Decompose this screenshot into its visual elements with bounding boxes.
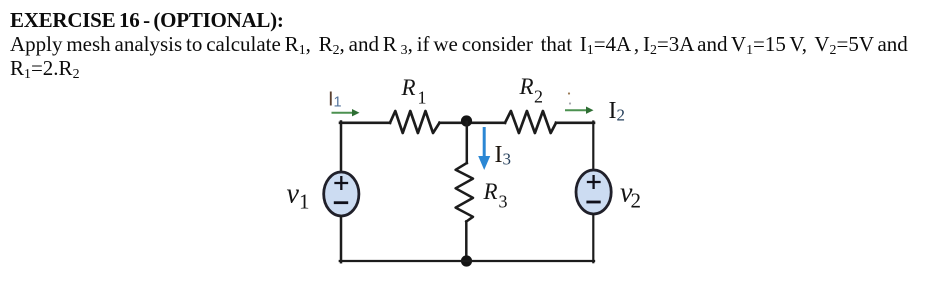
wire right vertical lower (592, 215, 594, 263)
wire left vertical upper (340, 122, 343, 173)
resistor R2 (505, 111, 556, 133)
label R3 (483, 179, 508, 212)
label I2 (609, 98, 626, 125)
label R1 (401, 75, 427, 108)
voltage source v2 (576, 170, 611, 214)
svg-text:R: R (401, 75, 416, 100)
svg-text:1: 1 (418, 88, 427, 108)
svg-text:2: 2 (534, 87, 543, 107)
voltage source v1 (324, 172, 359, 216)
wire R2 to top-right corner (556, 122, 594, 125)
label v1 (287, 179, 310, 214)
label I1 (328, 89, 342, 111)
faint speck artifacts above I2 arrow (568, 92, 571, 104)
wire right vertical upper (592, 122, 594, 171)
wire top-left horizontal segment (340, 122, 390, 125)
svg-text:1: 1 (334, 95, 342, 111)
svg-text:2: 2 (631, 189, 642, 213)
svg-text:I: I (609, 98, 617, 124)
svg-text:I: I (495, 142, 503, 168)
svg-text:R: R (483, 179, 498, 204)
svg-text:1: 1 (299, 190, 310, 214)
node A (top junction dot) (461, 115, 472, 126)
node B (bottom junction dot) (461, 255, 472, 266)
current arrow I1 (green) (333, 109, 360, 116)
resistor R3 (456, 163, 473, 222)
svg-text:R: R (519, 74, 534, 99)
svg-text:3: 3 (499, 192, 508, 212)
wire between R1 and node A (440, 122, 506, 125)
label I3 (495, 142, 512, 169)
label R2 (519, 74, 544, 107)
svg-text:3: 3 (503, 150, 512, 169)
current arrow I3 (blue) (478, 129, 490, 171)
svg-text:v: v (287, 179, 300, 210)
label v2 (620, 178, 641, 213)
current arrow I2 (green) (566, 107, 594, 114)
problem statement text (10, 8, 908, 81)
svg-text:2: 2 (617, 106, 626, 125)
wire node A down to R3 (466, 122, 469, 163)
wire R3 down to node B (465, 222, 468, 262)
wire bottom horizontal (340, 260, 594, 262)
resistor R1 (390, 111, 440, 133)
wire left vertical lower (340, 217, 343, 263)
